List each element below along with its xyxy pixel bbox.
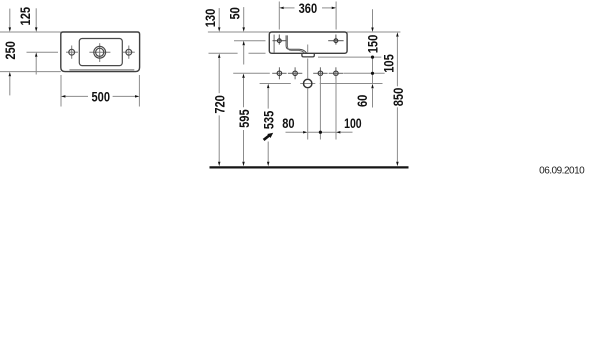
fixing hole 4: [334, 71, 339, 76]
siphon level line: [318, 56, 381, 58]
basin front outline: [269, 32, 347, 53]
fixing hole 3: [318, 71, 323, 76]
hole 3 extension line: [319, 76, 321, 140]
fixing hole 1 crosshair: [272, 72, 286, 74]
front tap hole left: [277, 39, 281, 43]
dimension 100 tail right: [340, 131, 352, 133]
dimension 850 arrow top: [396, 32, 399, 36]
dimension 500 arrow right: [135, 95, 139, 98]
tap hole row extension line: [234, 40, 266, 42]
dimension 50 tail bottom: [243, 45, 245, 64]
dimension 595 arrow top: [242, 74, 245, 78]
fixing hole 4 crosshair: [329, 72, 343, 74]
dimension 360 extension line right: [335, 2, 337, 30]
svg-text:360: 360: [299, 1, 318, 16]
dimension 850 line lower: [396, 107, 398, 162]
dimension 125 tail bottom: [35, 57, 37, 75]
dimension 850 line upper: [396, 37, 398, 87]
left tap hole crosshair: [66, 51, 78, 53]
dimension 130 arrow top: [218, 27, 221, 31]
dimension 50 arrow top: [242, 27, 245, 31]
dimension 500 extension line left: [60, 75, 62, 107]
svg-text:125: 125: [18, 7, 33, 26]
dimension 125 tail top: [35, 8, 37, 27]
drain circle: [304, 79, 312, 87]
dimension 130 / 720 shared arrow: [218, 54, 221, 58]
dimension 250 arrow bottom: [9, 72, 12, 76]
dimension 50 tail top: [243, 7, 245, 28]
drain direction arrow head: [267, 133, 273, 138]
dimension 80 arrow: [303, 131, 307, 134]
dimension 150 arrow top: [371, 28, 374, 32]
bowl section profile lower: [287, 35, 304, 53]
fixing hole row line left: [233, 72, 270, 74]
svg-text:80: 80: [282, 116, 294, 131]
svg-text:50: 50: [227, 7, 242, 19]
dimension 500 line left segment: [65, 95, 88, 97]
dimension 850 arrow bottom: [396, 162, 399, 166]
svg-text:100: 100: [344, 116, 362, 131]
drain outlet stub: [302, 53, 314, 57]
dimension dot at siphon line: [371, 56, 374, 59]
svg-text:500: 500: [92, 89, 111, 104]
dimension 80 tail left: [286, 131, 304, 133]
center line left: [27, 51, 59, 53]
fixing hole 3 crosshair: [313, 72, 327, 74]
svg-text:720: 720: [212, 95, 227, 114]
center faucet hole inner circle: [96, 48, 104, 56]
svg-text:150: 150: [365, 35, 380, 54]
rim top extension line right: [347, 31, 400, 33]
basin rim inner front edge: [69, 69, 134, 71]
dimension 125 arrow top: [35, 27, 38, 31]
drain direction arrow shaft: [264, 136, 270, 140]
drain axis inside basin: [307, 45, 309, 54]
dimension 360 line right segment: [322, 7, 332, 9]
drain center line through circle: [300, 83, 315, 85]
drain center line left: [260, 83, 291, 85]
dimension 500 line right segment: [113, 95, 135, 97]
basin outer rim (top view): [61, 32, 140, 72]
center faucet hole crosshair: [89, 51, 110, 53]
dimension 595 line lower: [243, 130, 245, 162]
left tap hole: [69, 49, 75, 55]
dimension 100 arrow: [336, 131, 340, 134]
fixing hole 1: [277, 71, 282, 76]
svg-text:06.09.2010: 06.09.2010: [539, 165, 585, 176]
dimension 360 arrow left: [279, 7, 283, 9]
dimension 80-100 line: [308, 131, 336, 133]
basin bottom extension line segment a: [209, 52, 238, 54]
dimension 50 arrow bottom: [242, 41, 245, 45]
hole 4 extension line: [335, 76, 337, 140]
svg-text:850: 850: [391, 88, 406, 107]
dimension 130 tail top: [218, 8, 220, 28]
dimension 720 arrow bottom: [218, 162, 221, 166]
dimension 535 line lower: [267, 142, 269, 162]
svg-text:250: 250: [3, 41, 18, 60]
dimension 250 tail top: [9, 9, 11, 28]
dimension 60 tail: [372, 88, 374, 107]
right tap hole: [126, 49, 132, 55]
svg-text:595: 595: [237, 109, 252, 128]
dimension 535 line upper: [267, 88, 269, 109]
svg-text:105: 105: [382, 54, 397, 73]
dimension 360 arrow right: [332, 7, 336, 9]
basin bowl (inner rect): [79, 39, 122, 66]
dimension 595 line upper: [243, 78, 245, 107]
dimension 595 arrow bottom: [242, 162, 245, 166]
rim top extension line left: [208, 31, 269, 33]
basin bottom extension line segment b: [249, 52, 266, 54]
svg-text:535: 535: [261, 110, 276, 129]
dimension 535 arrow top: [267, 84, 270, 88]
svg-text:130: 130: [203, 9, 218, 28]
dimension chain line 150-105-60: [372, 57, 374, 83]
dimension 60 arrow bottom: [371, 84, 374, 88]
fixing hole row line right: [343, 72, 384, 74]
dimension 250 arrow top: [9, 27, 12, 31]
fixing hole 2 crosshair: [288, 72, 302, 74]
floor line: [210, 166, 409, 168]
front tap hole right: [334, 39, 338, 43]
drain center line right: [320, 83, 383, 85]
right tap hole crosshair: [123, 51, 135, 53]
dimension 720 line lower: [218, 115, 220, 161]
extension line bottom edge: [0, 71, 61, 73]
basin front inner wall line: [273, 35, 275, 53]
dimension 500 extension line right: [138, 75, 140, 107]
dimension 360 extension line left: [278, 2, 280, 30]
drain axis extension: [307, 59, 309, 80]
dimension 250 tail bottom: [9, 76, 11, 95]
dimension 535 arrow bottom: [267, 162, 270, 166]
front tap hole left crosshair: [273, 40, 287, 42]
extension line top edge: [0, 31, 61, 33]
dimension 500 arrow left: [61, 95, 65, 98]
dimension dot 80/100: [319, 131, 322, 134]
dimension 150 tail top: [372, 9, 374, 27]
dimension 720 line upper: [218, 58, 220, 93]
bowl section profile upper: [286, 35, 307, 53]
svg-text:60: 60: [355, 95, 370, 107]
dimension 125 arrow bottom: [35, 52, 38, 56]
front tap hole right crosshair: [328, 40, 343, 42]
dimension 360 line left segment: [284, 7, 295, 9]
fixing hole 2: [293, 71, 298, 76]
center faucet hole outer circle: [94, 46, 106, 58]
dimension dot at hole row: [371, 72, 374, 75]
